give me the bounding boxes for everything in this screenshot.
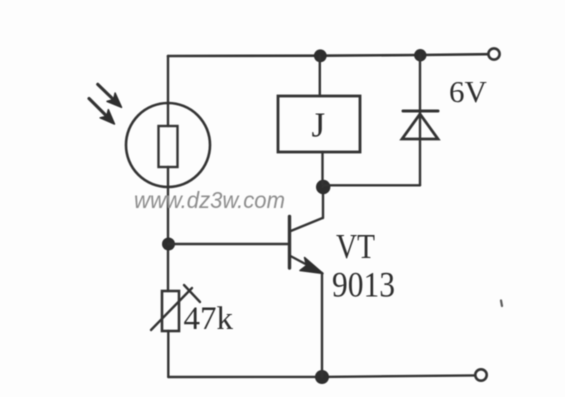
diode VD triangle: [402, 114, 438, 139]
wire left drop to photoresistor: [167, 56, 169, 104]
svg-text:47k: 47k: [184, 301, 234, 337]
diode VD lead top: [419, 55, 421, 139]
node junction diode top: [414, 49, 426, 61]
wire emitter down: [321, 273, 323, 377]
node junction base: [162, 238, 175, 251]
transistor emitter diagonal with arrow: [290, 256, 313, 268]
wire resistor bottom: [167, 331, 169, 377]
wire base: [168, 243, 288, 245]
node junction emitter bottom: [315, 370, 329, 384]
photoresistor lead bottom: [167, 167, 169, 187]
svg-text:J: J: [312, 106, 326, 145]
resistor RP arrow diagonal: [151, 288, 192, 330]
wire bottom rail: [168, 375, 475, 377]
photoresistor lead top: [167, 104, 169, 126]
svg-text:6V: 6V: [449, 74, 488, 109]
resistor RP arrow hook: [184, 285, 200, 302]
transistor VT base bar: [288, 217, 291, 269]
wire top rail: [168, 54, 488, 56]
diode VD cathode bar: [403, 110, 438, 113]
svg-text:9013: 9013: [332, 265, 395, 305]
speck: [501, 301, 502, 307]
transistor collector diagonal: [290, 218, 323, 232]
wire relay top: [319, 56, 321, 96]
diode VD lead bottom: [419, 139, 421, 185]
node junction relay bottom: [316, 180, 330, 194]
light arrow lower: [85, 94, 119, 128]
svg-text:www.dz3w.com: www.dz3w.com: [134, 187, 285, 213]
relay J box: [278, 96, 360, 152]
node junction relay top: [314, 49, 327, 62]
terminal top: [488, 48, 499, 59]
resistor RP body: [162, 291, 179, 331]
photoresistor RG body: [159, 126, 178, 167]
photoresistor RG circle: [126, 103, 210, 187]
light arrow upper: [94, 80, 126, 111]
svg-text:VT: VT: [336, 227, 375, 266]
wire relay bottom: [321, 152, 323, 187]
wire photoresistor to base node: [167, 187, 169, 291]
terminal bottom: [475, 369, 486, 380]
wire collector up: [322, 187, 324, 218]
wire junction to diode bottom: [323, 184, 420, 186]
